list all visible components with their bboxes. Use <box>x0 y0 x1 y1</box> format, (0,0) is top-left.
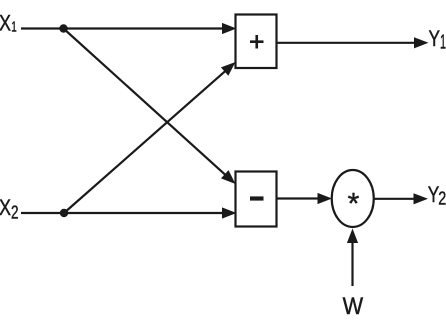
output label Y2 <box>428 182 446 209</box>
plus sign <box>250 35 264 49</box>
output label Y1 <box>429 26 446 54</box>
node X1 junction dot <box>59 24 67 32</box>
wire X1 input to adder (horizontal) <box>21 23 237 34</box>
minus sign <box>250 196 264 200</box>
svg-text:Y: Y <box>429 26 441 51</box>
wire adder to output Y1 <box>277 37 429 48</box>
input label X1 <box>0 11 17 36</box>
wire X2 input to subtractor (horizontal) <box>21 207 237 218</box>
svg-text:W: W <box>343 293 364 320</box>
svg-text:1: 1 <box>440 32 446 54</box>
svg-text:2: 2 <box>11 203 19 223</box>
wire multiplier to output Y2 <box>374 193 428 204</box>
node X2 junction dot <box>60 209 68 217</box>
subtractor box U2 <box>236 172 277 227</box>
input label X2 <box>0 195 19 223</box>
svg-text:1: 1 <box>11 18 17 35</box>
svg-text:X: X <box>0 11 11 36</box>
wire subtractor to multiplier <box>277 193 332 204</box>
wire W to multiplier (vertical) <box>347 229 358 287</box>
wire X2 junction to adder (diagonal) <box>64 58 239 213</box>
svg-text:*: * <box>348 188 360 221</box>
multiplier M1 (ellipse) <box>332 170 374 227</box>
svg-text:2: 2 <box>438 189 446 209</box>
adder box U1 <box>236 15 277 69</box>
wire X1 junction to subtractor (diagonal) <box>64 29 240 189</box>
svg-text:X: X <box>0 195 11 220</box>
